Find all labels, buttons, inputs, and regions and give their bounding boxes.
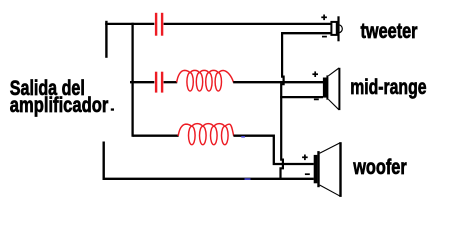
stray blue mark on bottom return wire xyxy=(245,178,251,180)
capacitor (tweeter high-pass) xyxy=(155,13,163,36)
polarity + (woofer) xyxy=(302,155,308,161)
polarity + (tweeter) xyxy=(321,15,327,21)
wire: amp - terminal stub (bottom-left vertical) xyxy=(102,142,104,181)
capacitor (mid band-pass) xyxy=(155,72,163,93)
wire: return bus (vertical, with jogs crossing + wires) xyxy=(281,32,284,178)
svg-text:tweeter: tweeter xyxy=(361,20,418,43)
polarity - (woofer) xyxy=(305,173,310,175)
speaker: tweeter (body + dome) xyxy=(331,16,342,41)
wire: mid branch, bus to C2 xyxy=(130,81,154,83)
speaker: mid-range (body + cone) xyxy=(324,68,340,110)
inductor (woofer low-pass coil) xyxy=(178,124,234,145)
polarity + (mid-range) xyxy=(312,71,318,77)
label: Salida del amplificador (amp output) xyxy=(10,77,114,117)
wire: mid-range - return xyxy=(280,96,323,98)
inductor (mid branch coil) xyxy=(177,70,234,91)
wire: tweeter branch, right segment (C1 to tweeter +) xyxy=(164,23,331,25)
wire: woofer branch, L2 to corner and down to woofer + xyxy=(234,136,314,164)
wire: woofer branch, bus corner to L2 xyxy=(133,135,179,137)
polarity - (tweeter) xyxy=(322,36,327,38)
polarity - (mid-range) xyxy=(314,98,319,100)
wire: tweeter - return (corner to tweeter -) xyxy=(281,32,330,34)
svg-text:amplificador: amplificador xyxy=(10,94,109,117)
stray blue mark on woofer branch wire xyxy=(241,136,245,138)
wire: bottom return (amp - to woofer -) xyxy=(104,178,314,180)
svg-text:woofer: woofer xyxy=(352,156,406,179)
wire: mid branch, L1 to mid-range + xyxy=(233,81,323,83)
svg-text:mid-range: mid-range xyxy=(350,76,426,99)
speaker: woofer (body + cone) xyxy=(315,142,341,197)
wire: tweeter branch, left segment (amp + to C1) xyxy=(105,23,154,25)
wire: mid branch, C2 to L1 xyxy=(164,81,178,83)
wire: amp + terminal stub (top-left vertical) xyxy=(105,21,107,58)
wire: main + bus (vertical from top wire down to woofer branch) xyxy=(131,23,133,137)
